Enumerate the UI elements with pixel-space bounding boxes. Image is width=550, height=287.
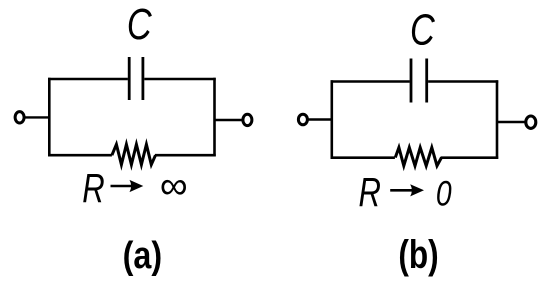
resistor R1 zigzag (a)	[112, 144, 156, 164]
svg-text:R: R	[359, 169, 381, 215]
wire bottom rail left (b)	[331, 156, 395, 159]
wire left vertical (b)	[330, 80, 333, 159]
arrow head (b)	[410, 184, 424, 196]
svg-text:(a): (a)	[123, 235, 162, 277]
wire left terminal (b)	[308, 118, 333, 120]
resistor R2 zigzag (b)	[395, 148, 441, 166]
wire bottom rail right (a)	[155, 154, 216, 157]
terminal left (b)	[298, 114, 307, 125]
capacitor C1 left plate (a)	[128, 57, 131, 100]
svg-text:∞: ∞	[160, 165, 188, 208]
arrow tail (b)	[390, 189, 414, 192]
wire left vertical (a)	[48, 78, 51, 157]
arrow head (a)	[130, 180, 144, 192]
terminal right (b)	[526, 116, 536, 128]
wire right terminal (a)	[215, 119, 244, 121]
capacitor C1 right plate (a)	[141, 57, 144, 100]
wire right terminal (b)	[497, 121, 526, 123]
capacitor C2 left plate (b)	[410, 59, 413, 103]
wire top rail right (a)	[144, 78, 215, 81]
wire right vertical (a)	[213, 78, 216, 157]
svg-text:C: C	[127, 0, 152, 49]
terminal right (a)	[243, 114, 252, 125]
wire right vertical (b)	[496, 80, 499, 159]
svg-text:R: R	[82, 165, 104, 211]
terminal left (a)	[15, 112, 24, 123]
wire bottom rail right (b)	[441, 156, 499, 159]
svg-text:(b): (b)	[398, 231, 438, 276]
svg-text:0: 0	[436, 173, 452, 213]
wire top rail left (a)	[48, 78, 128, 81]
wire top rail right (b)	[428, 80, 498, 83]
wire left terminal (a)	[24, 116, 50, 118]
arrow tail (a)	[111, 185, 135, 188]
wire bottom rail left (a)	[48, 154, 112, 157]
svg-text:C: C	[410, 5, 435, 54]
wire top rail left (b)	[331, 80, 410, 83]
capacitor C2 right plate (b)	[425, 59, 428, 103]
